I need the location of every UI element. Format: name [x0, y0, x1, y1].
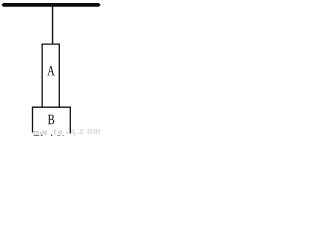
watermark text: ". com" at bottom right — [78, 129, 100, 134]
box B (component B, open-bottom rectangle cut by image edge) — [33, 107, 71, 133]
watermark fragment: faint "m" glyph under box B left side — [34, 131, 41, 136]
watermark fragment: faint "t" with ascender — [53, 129, 56, 136]
watermark fragment: dark letter tops cut by bottom edge — [34, 135, 65, 137]
label A — [47, 66, 54, 75]
watermark fragment: faint dot left of box B right edge — [66, 132, 67, 134]
label B — [48, 115, 54, 125]
watermark fragment: faint "o"-like ring — [59, 131, 62, 134]
watermark fragment: faint "l"-like stroke — [45, 131, 48, 136]
wire from busbar down to box A — [52, 6, 53, 44]
watermark fragment: faint "a"-like glyph — [42, 131, 45, 135]
busbar (top horizontal supply rail) — [2, 3, 101, 7]
watermark fragment: faint "5"-like glyph right of box B right edge — [72, 130, 76, 136]
box A (component A, open-bottom rectangle sitting on box B) — [42, 44, 59, 107]
